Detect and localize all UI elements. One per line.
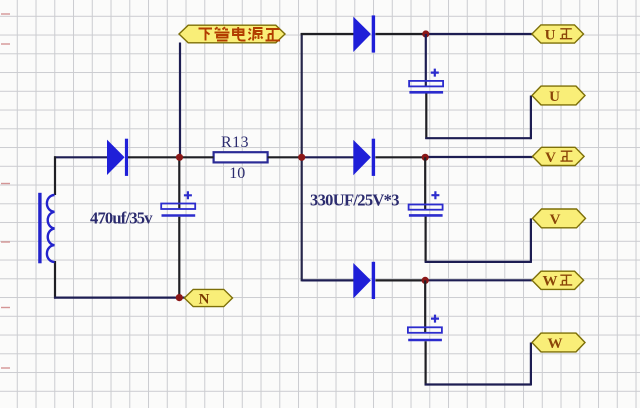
wire: diode D3 cathode to node V+ <box>375 156 425 158</box>
wire: node V+ down to capacitor C3 <box>424 157 426 209</box>
svg-text:470uf/35v: 470uf/35v <box>90 208 153 227</box>
svg-text:W: W <box>548 336 563 352</box>
svg-text:V: V <box>545 150 556 166</box>
port U正 <box>532 25 584 44</box>
port 下管电源正 <box>179 25 285 43</box>
junction: node U+ <box>422 30 429 37</box>
wire: diode D1 cathode to node A <box>128 156 181 158</box>
svg-text:V: V <box>550 212 561 228</box>
wire: left loop left vertical lower <box>54 261 56 299</box>
wire: C4 bottom lead down <box>425 341 427 385</box>
svg-text:U: U <box>545 27 556 43</box>
wire: resistor R1 to node B <box>268 156 302 158</box>
diode D2 <box>353 15 375 52</box>
wire: U loop right vertical up to port U <box>530 96 532 140</box>
resistor R1 designator text R13 <box>221 134 249 151</box>
port U <box>532 86 585 105</box>
wire: node B to diode D3 <box>302 156 354 158</box>
port V正 <box>533 147 585 166</box>
svg-text:N: N <box>199 292 210 308</box>
capacitor C3 <box>409 191 443 215</box>
wire: bottom row from bus corner to diode D4 <box>302 279 354 281</box>
resistor R1 body <box>214 152 268 162</box>
wire: W loop right vertical up to port W <box>530 343 532 386</box>
wire: V loop right vertical up to port V <box>530 218 532 263</box>
diode D1 <box>107 139 128 176</box>
svg-text:U: U <box>549 89 560 105</box>
capacitor C1 470uf/35v <box>161 191 195 215</box>
junction: node V+ <box>422 154 429 161</box>
wire: node W+ down to capacitor C4 <box>424 280 426 332</box>
port W正 <box>532 271 584 290</box>
wire: vertical drop from port 下管电源正 to node A <box>179 43 181 158</box>
capacitor C1 470uf/35v : lead above <box>178 157 180 208</box>
inductor L1 core bar <box>38 193 41 263</box>
capacitor C4 <box>408 315 442 340</box>
wire: node U+ down to capacitor C2 <box>425 34 427 86</box>
svg-text:330UF/25V*3: 330UF/25V*3 <box>310 191 400 210</box>
wire: node V+ to port V正 <box>425 156 532 158</box>
resistor R1 value text 10 <box>229 165 245 182</box>
wire: U loop bottom horizontal <box>425 137 531 139</box>
wire: C2 bottom lead down <box>425 94 427 140</box>
junction: node A <box>176 154 183 161</box>
wire: left loop top horizontal <box>54 156 108 158</box>
wire: node W+ to port W正 <box>425 279 532 281</box>
junction: node N <box>176 294 183 301</box>
port V <box>533 209 586 228</box>
wire: top row from bus corner to diode D2 <box>301 33 354 35</box>
wire: left loop left vertical upper <box>54 156 56 195</box>
wire: C3 bottom lead down <box>425 217 427 262</box>
wire: C1 bottom lead down to node N <box>178 217 180 298</box>
port N <box>184 289 232 307</box>
wire: V loop bottom horizontal <box>425 261 531 263</box>
svg-text:10: 10 <box>229 165 245 182</box>
wire: diode D2 cathode to node U+ <box>375 33 425 35</box>
junction: node W+ <box>422 277 429 284</box>
svg-text:R13: R13 <box>221 134 249 151</box>
capacitor value text 470uf/35v <box>90 208 153 227</box>
diode D3 <box>353 139 375 176</box>
port W <box>532 333 585 352</box>
capacitor value text 330UF/25V*3 <box>310 191 400 210</box>
svg-text:W: W <box>543 274 558 290</box>
wire: node U+ to port U正 <box>426 33 532 35</box>
wire: W loop bottom horizontal <box>425 383 531 385</box>
decorative left-edge tick marks <box>1 14 10 368</box>
diode D4 <box>353 262 375 299</box>
wire: diode D4 cathode to node W+ <box>375 279 425 281</box>
inductor L1 winding <box>47 195 55 262</box>
wire: vertical bus connecting three bridge rows <box>301 33 303 281</box>
junction: node B <box>298 154 305 161</box>
wire: node A to resistor R1 <box>180 156 214 158</box>
capacitor C2 <box>409 69 443 93</box>
wire: left loop bottom horizontal to node N <box>54 297 185 299</box>
